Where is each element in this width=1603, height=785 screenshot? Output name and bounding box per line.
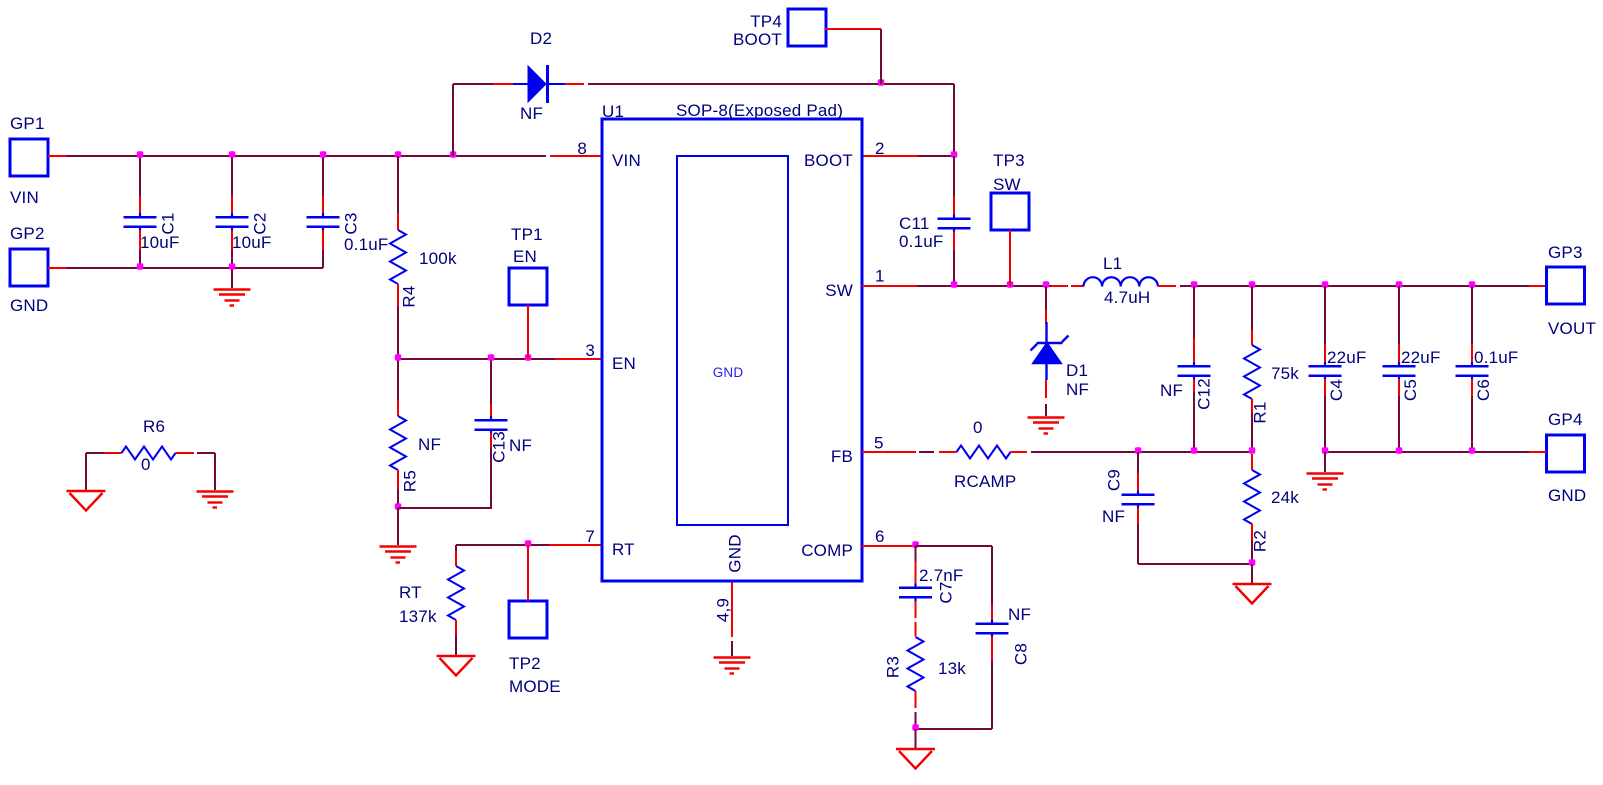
ground triangle below R6 left	[67, 491, 106, 511]
wire pin1 SW red	[862, 285, 917, 287]
wire C12 top	[1193, 286, 1195, 338]
capacitor C8	[976, 620, 1009, 638]
wire GND rail left	[66, 267, 323, 269]
wire C13 bottom red	[490, 433, 492, 447]
svg-text:FB: FB	[831, 447, 853, 466]
wire C6 bottom red	[1471, 379, 1473, 396]
svg-text:10uF: 10uF	[232, 233, 272, 252]
wire C13 top red	[490, 404, 492, 417]
junction EN-TP1	[525, 354, 532, 361]
svg-text:EN: EN	[612, 354, 636, 373]
ground symbol below R5	[380, 547, 417, 563]
svg-text:NF: NF	[520, 104, 543, 123]
wire GP1 red stub	[48, 155, 66, 157]
wire C11 bottom red	[953, 232, 955, 251]
wire VOUT rail	[1180, 285, 1529, 287]
junction BOOT-C11	[951, 151, 958, 158]
junction GND-C1	[137, 263, 144, 270]
connector GP3 (VOUT)	[1547, 267, 1585, 304]
svg-text:0.1uF: 0.1uF	[344, 235, 388, 254]
svg-text:C1: C1	[159, 212, 178, 234]
wire C7 bottom red	[915, 601, 917, 618]
svg-text:C3: C3	[342, 212, 361, 234]
svg-text:C12: C12	[1195, 378, 1214, 410]
ground symbol below C2	[214, 290, 251, 306]
wire VOUT red stub	[1529, 285, 1546, 287]
svg-text:0: 0	[973, 418, 983, 437]
svg-text:R6: R6	[143, 417, 165, 436]
wire R4 top	[397, 156, 399, 213]
svg-text:GND: GND	[10, 296, 48, 315]
svg-text:100k: 100k	[419, 249, 457, 268]
wire GND rail red stub	[1529, 451, 1546, 453]
wire C6 top red	[1471, 344, 1473, 363]
wire pin2 to C11	[918, 155, 954, 157]
capacitor C7	[899, 584, 932, 602]
wire C12 top red	[1193, 338, 1195, 363]
svg-text:1: 1	[875, 267, 885, 286]
wire C9 bottom	[1137, 524, 1139, 564]
resistor R4	[390, 230, 406, 284]
wire C1 top red	[139, 196, 141, 214]
wire C4 bottom red	[1324, 379, 1326, 396]
wire C3 bottom	[322, 250, 324, 268]
wire R4 bottom red	[397, 284, 399, 306]
svg-text:24k: 24k	[1271, 488, 1299, 507]
wire D1 top red	[1045, 310, 1047, 324]
svg-text:GND: GND	[1548, 486, 1586, 505]
wire C7 top red	[915, 562, 917, 584]
capacitor C1	[124, 213, 157, 231]
svg-text:VIN: VIN	[10, 188, 39, 207]
svg-text:RT: RT	[612, 540, 635, 559]
wire RT rail	[456, 544, 549, 546]
capacitor C12	[1178, 362, 1211, 380]
wire D2 left	[453, 83, 493, 85]
wire C13 bottom	[490, 447, 492, 508]
wire C8 to R3 bottom	[916, 728, 993, 730]
svg-text:BOOT: BOOT	[804, 151, 853, 170]
svg-text:2: 2	[875, 139, 885, 158]
svg-text:TP3: TP3	[993, 151, 1025, 170]
svg-text:GP1: GP1	[10, 114, 45, 133]
wire GP2 red stub	[48, 267, 66, 269]
wire C2 top red	[231, 196, 233, 214]
svg-text:MODE: MODE	[509, 677, 561, 696]
resistor R5	[390, 416, 406, 470]
wire C8 top red	[991, 605, 993, 621]
svg-text:C6: C6	[1474, 379, 1493, 401]
wire R6 right	[197, 452, 215, 454]
wire C1 bottom red	[139, 230, 141, 250]
wire TP3 to SW rail	[1009, 230, 1011, 286]
wire C5 bottom red	[1398, 379, 1400, 396]
junction FB-C9	[1135, 447, 1142, 454]
capacitor C2	[216, 213, 249, 231]
wire R2 bottom red	[1251, 524, 1253, 540]
wire TP2 to RT rail	[527, 545, 529, 601]
wire FB rail	[1031, 451, 1252, 453]
svg-text:R3: R3	[884, 656, 903, 678]
test point TP1	[509, 268, 547, 305]
wire D1 bottom red	[1045, 380, 1047, 398]
junction R2-C9 bottom	[1249, 559, 1256, 566]
junction SW-C11	[951, 281, 958, 288]
svg-text:NF: NF	[1102, 507, 1125, 526]
wire R5 bottom red	[397, 470, 399, 489]
junction SW-TP3	[1007, 281, 1014, 288]
junction COMP-C7	[912, 541, 919, 548]
svg-text:0.1uF: 0.1uF	[1474, 348, 1518, 367]
svg-text:3: 3	[585, 341, 595, 360]
svg-text:R5: R5	[401, 470, 420, 492]
wire RT rail red stub to pin 7	[549, 544, 602, 546]
wire R1 top red	[1251, 330, 1253, 345]
svg-text:NF: NF	[509, 436, 532, 455]
capacitor C9	[1122, 491, 1155, 509]
svg-text:RT: RT	[399, 583, 422, 602]
junction VIN-C1	[137, 151, 144, 158]
wire TP1 to EN rail	[527, 305, 529, 359]
resistor R2	[1244, 470, 1260, 524]
wire C8 bottom	[991, 660, 993, 729]
svg-text:BOOT: BOOT	[733, 30, 782, 49]
wire GND rail right	[1325, 451, 1529, 453]
wire C9 top	[1137, 452, 1139, 473]
svg-text:TP4: TP4	[750, 12, 782, 31]
wire ground stub below C2	[231, 268, 233, 288]
wire RT resistor top	[455, 545, 457, 551]
wire RT resistor top red	[455, 551, 457, 566]
svg-text:75k: 75k	[1271, 364, 1299, 383]
wire C13 top	[490, 359, 492, 404]
wire C5 bottom	[1398, 396, 1400, 452]
svg-text:SW: SW	[993, 175, 1021, 194]
wire pin5 FB red	[862, 451, 916, 453]
svg-text:C5: C5	[1401, 379, 1420, 401]
wire C4 top	[1324, 286, 1326, 344]
svg-text:4.7uH: 4.7uH	[1104, 288, 1150, 307]
wire L1 right red	[1158, 285, 1176, 287]
wire C3 top	[322, 156, 324, 196]
wire C2 bottom	[231, 250, 233, 268]
capacitor C3	[307, 213, 340, 231]
resistor R3	[908, 637, 924, 691]
svg-text:C7: C7	[937, 581, 956, 603]
wire VIN rail red stub to pin 8	[550, 155, 602, 157]
wire R6 left drop	[85, 453, 87, 491]
svg-text:D1: D1	[1066, 361, 1088, 380]
wire D2 right red	[565, 83, 584, 85]
wire VIN rail	[66, 155, 546, 157]
junction GND-C2	[229, 263, 236, 270]
junction FB-R1R2	[1249, 447, 1256, 454]
wire C7-R3 dash	[915, 622, 917, 637]
diode D2	[513, 65, 565, 103]
svg-text:NF: NF	[418, 435, 441, 454]
svg-text:GP4: GP4	[1548, 410, 1583, 429]
wire C9 bottom red	[1137, 508, 1139, 525]
svg-text:0: 0	[141, 455, 151, 474]
wire C4 bottom	[1324, 396, 1326, 452]
wire U1 GND pin red	[731, 582, 733, 637]
wire C11 top red	[953, 196, 955, 216]
wire BOOT vertical down	[953, 84, 955, 156]
svg-text:10uF: 10uF	[140, 233, 180, 252]
wire R5-C13 bottom link	[398, 507, 492, 509]
svg-text:RCAMP: RCAMP	[954, 472, 1016, 491]
svg-text:NF: NF	[1008, 605, 1031, 624]
wire C8 top drop	[991, 546, 993, 605]
wire C3 bottom red	[322, 230, 324, 250]
wire RT resistor bottom	[455, 635, 457, 656]
wire TP4 down	[880, 29, 882, 84]
junction VIN-D2 branch	[450, 151, 457, 158]
op-amp U1 SOP-8 body	[602, 119, 862, 581]
svg-text:C9: C9	[1105, 469, 1124, 491]
wire R2 bottom	[1251, 540, 1253, 564]
capacitor C6	[1456, 362, 1489, 380]
wire D2 left red	[493, 83, 513, 85]
ground symbol below D1	[1028, 418, 1065, 434]
wire R5 bottom	[397, 489, 399, 508]
svg-text:7: 7	[585, 527, 595, 546]
wire EN rail red stub to pin 3	[555, 358, 602, 360]
svg-text:5: 5	[874, 434, 884, 453]
inductor L1	[1084, 277, 1158, 286]
wire D1 bottom	[1045, 404, 1047, 416]
wire R5 top red	[397, 400, 399, 416]
junction VOUT-C12	[1191, 281, 1198, 288]
wire FB dash	[919, 451, 934, 453]
junction VOUT-C6	[1469, 281, 1476, 288]
wire C4 top red	[1324, 344, 1326, 363]
wire C9 top red	[1137, 473, 1139, 492]
junction VOUT-C4	[1322, 281, 1329, 288]
wire R5 top	[397, 359, 399, 400]
wire ground stub below C4	[1324, 452, 1326, 472]
wire C12 bottom	[1193, 392, 1195, 452]
junction VOUT-R1	[1249, 281, 1256, 288]
svg-text:0.1uF: 0.1uF	[899, 232, 943, 251]
wire pin6 COMP red	[862, 545, 916, 547]
wire R6 right red	[176, 452, 195, 454]
svg-text:GP3: GP3	[1548, 243, 1583, 262]
wire D2 branch vertical	[452, 84, 454, 156]
svg-text:SOP-8(Exposed Pad): SOP-8(Exposed Pad)	[676, 101, 843, 120]
connector GP4 (GND)	[1547, 435, 1585, 472]
wire R3 bottom	[915, 712, 917, 729]
wire C8 bottom red	[991, 637, 993, 661]
wire C11 bottom	[953, 250, 955, 286]
svg-text:C2: C2	[251, 212, 270, 234]
svg-text:NF: NF	[1066, 380, 1089, 399]
junction R3-C8 bottom	[912, 724, 919, 731]
svg-text:R2: R2	[1251, 530, 1270, 552]
wire C9 to R2 bottom	[1138, 563, 1252, 565]
wire R6 left	[86, 452, 104, 454]
capacitor C5	[1383, 362, 1416, 380]
svg-text:137k: 137k	[399, 607, 437, 626]
junction VIN-R4	[395, 151, 402, 158]
junction GNDR-C5	[1396, 447, 1403, 454]
svg-text:U1: U1	[602, 102, 624, 121]
wire RT resistor bottom red	[455, 620, 457, 635]
junction GNDR-C6	[1469, 447, 1476, 454]
wire R1 bottom red	[1251, 399, 1253, 413]
wire RCAMP right red	[1011, 451, 1028, 453]
wire R6 right drop	[214, 453, 216, 490]
connector GP2 (GND input)	[10, 249, 48, 286]
svg-text:SW: SW	[825, 281, 853, 300]
svg-text:GP2: GP2	[10, 224, 45, 243]
svg-text:VIN: VIN	[612, 151, 641, 170]
ground triangle below RT	[437, 656, 476, 676]
junction VOUT-C5	[1396, 281, 1403, 288]
wire C1 top	[139, 156, 141, 196]
wire R1 top	[1251, 286, 1253, 330]
ground triangle below R2	[1233, 584, 1272, 604]
wire R4 top red	[397, 213, 399, 230]
ground symbol below C4	[1307, 474, 1344, 490]
svg-text:COMP: COMP	[801, 541, 853, 560]
svg-text:13k: 13k	[938, 659, 966, 678]
resistor RT	[448, 566, 464, 620]
wire C7 top	[915, 546, 917, 562]
junction BOOT-TP4	[878, 79, 885, 86]
svg-text:VOUT: VOUT	[1548, 319, 1596, 338]
wire R1 bottom	[1251, 413, 1253, 452]
ground triangle below R3	[896, 749, 935, 769]
svg-text:TP2: TP2	[509, 654, 541, 673]
wire TP4 red	[825, 28, 881, 30]
wire L1 left red	[1051, 285, 1068, 287]
wire BOOT top rail	[588, 83, 954, 85]
wire L1 left red2	[1071, 285, 1084, 287]
U1 exposed pad box	[677, 156, 788, 525]
wire C12 bottom red	[1193, 379, 1195, 394]
svg-text:GND: GND	[726, 534, 745, 572]
wire D1 top	[1045, 286, 1047, 310]
wire RCAMP left red	[939, 451, 957, 453]
ground symbol below R6 right	[197, 492, 234, 508]
svg-text:R1: R1	[1251, 401, 1270, 423]
wire C5 top red	[1398, 344, 1400, 363]
capacitor C13	[475, 416, 508, 434]
wire C6 top	[1471, 286, 1473, 344]
svg-text:L1: L1	[1103, 254, 1122, 273]
wire R5 ground stub	[397, 508, 399, 545]
junction SW-D1	[1043, 281, 1050, 288]
test point TP3	[991, 193, 1029, 230]
wire R2 ground stub	[1251, 564, 1253, 584]
connector GP1 (VIN input)	[10, 139, 48, 176]
wire R6 left red	[104, 452, 122, 454]
svg-text:8: 8	[577, 139, 587, 158]
capacitor C11	[938, 215, 971, 233]
svg-text:R4: R4	[400, 285, 419, 307]
svg-text:EN: EN	[513, 247, 537, 266]
capacitor C4	[1309, 362, 1342, 380]
svg-text:C4: C4	[1327, 379, 1346, 401]
svg-text:C13: C13	[490, 431, 509, 463]
wire C2 top	[231, 156, 233, 196]
wire C3 top red	[322, 196, 324, 214]
junction VIN-C3	[320, 151, 327, 158]
resistor R1	[1244, 345, 1260, 399]
junction VIN-C2	[229, 151, 236, 158]
wire C1 bottom	[139, 250, 141, 268]
wire COMP to C8 top	[916, 545, 993, 547]
wire C11 top	[953, 156, 955, 196]
wire R4 bottom	[397, 306, 399, 359]
wire C6 bottom	[1471, 396, 1473, 452]
wire SW rail	[917, 285, 1051, 287]
wire pin2 red	[862, 155, 918, 157]
resistor R6	[122, 447, 176, 460]
test point TP2	[509, 601, 547, 638]
svg-text:D2: D2	[530, 29, 552, 48]
wire EN rail	[398, 358, 555, 360]
wire R3 bottom red	[915, 691, 917, 708]
junction FB-C12	[1191, 447, 1198, 454]
wire C2 bottom red	[231, 230, 233, 250]
junction EN-C13	[488, 354, 495, 361]
junction GNDR-C4	[1322, 447, 1329, 454]
junction RT-TP2	[525, 540, 532, 547]
svg-text:4,9: 4,9	[714, 598, 733, 622]
svg-text:6: 6	[875, 527, 885, 546]
svg-text:22uF: 22uF	[1401, 348, 1441, 367]
junction R5-C13 bottom	[395, 503, 402, 510]
wire U1 GND pin	[731, 641, 733, 656]
svg-text:C8: C8	[1012, 643, 1031, 665]
resistor RCAMP	[957, 446, 1011, 459]
diode D1 (zener, NF)	[1031, 322, 1069, 380]
wire R2 top red	[1251, 454, 1253, 470]
svg-text:GND: GND	[713, 365, 744, 380]
svg-text:NF: NF	[1160, 381, 1183, 400]
wire R3 ground stub	[915, 729, 917, 749]
svg-text:TP1: TP1	[511, 225, 543, 244]
svg-text:C11: C11	[899, 214, 930, 233]
ground symbol below U1	[714, 658, 751, 674]
junction EN-R4R5	[395, 354, 402, 361]
wire C5 top	[1398, 286, 1400, 344]
svg-text:22uF: 22uF	[1327, 348, 1367, 367]
test point TP4	[788, 9, 826, 46]
